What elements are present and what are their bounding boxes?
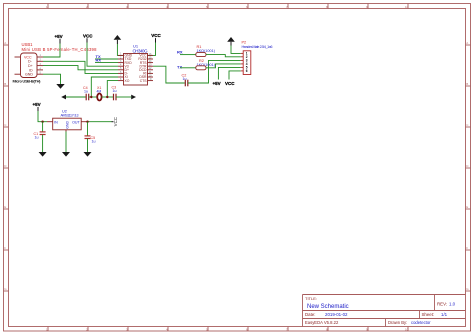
wire USB GND down — [43, 74, 61, 84]
svg-text:Micro USB-B(TH): Micro USB-B(TH) — [13, 78, 42, 83]
USB1 shield stub left lower — [15, 73, 21, 75]
svg-text:RX: RX — [96, 58, 102, 63]
wire VCC flag to U1 VCC pin — [148, 43, 156, 56]
wire C1 branch down — [42, 122, 44, 132]
svg-text:AMS1117-3.3: AMS1117-3.3 — [61, 113, 79, 117]
svg-text:E: E — [466, 205, 468, 209]
wire U1 DTR to C2 — [153, 66, 185, 83]
power flag VCC (rotated, at U2 OUT) — [112, 117, 118, 126]
svg-text:F: F — [466, 246, 468, 250]
svg-text:GND: GND — [65, 121, 69, 129]
U1 right pin names — [138, 54, 147, 83]
USB1 pin 5 GND stub — [37, 73, 43, 75]
capacitor C1 plates — [40, 132, 46, 135]
svg-text:6: 6 — [246, 69, 248, 73]
svg-text:OUT: OUT — [72, 120, 80, 124]
svg-text:1.0: 1.0 — [449, 301, 456, 306]
capacitor C2 plates — [185, 80, 188, 87]
svg-text:+5V: +5V — [55, 34, 63, 39]
ground arrow left of crystal rail — [61, 95, 66, 100]
svg-text:VCC: VCC — [225, 81, 235, 86]
svg-text:1u: 1u — [35, 135, 39, 139]
wire U1 XI to crystal rail — [91, 77, 118, 97]
U1 right pin numbers — [149, 52, 152, 81]
svg-text:1u: 1u — [113, 89, 117, 93]
svg-text:Sheet:: Sheet: — [422, 312, 435, 317]
wire R1 to header pin 2 — [206, 55, 241, 57]
wire X1 to XO node and C3 — [102, 96, 114, 98]
wire arrow to header pin 1 — [231, 46, 241, 54]
svg-text:B: B — [466, 82, 468, 86]
ground arrow below USB — [56, 84, 64, 89]
USB1 pin 2 D- stub — [37, 60, 43, 62]
node XO junction dot — [106, 96, 108, 98]
U2 GND pin stub down — [65, 130, 67, 132]
title block box — [303, 295, 466, 327]
frame ticks bottom — [48, 327, 408, 332]
wire USB D- to U1 D- — [43, 61, 118, 73]
crystal X1 body — [97, 94, 101, 101]
capacitor C5 plates — [85, 136, 91, 139]
svg-text:codetector: codetector — [411, 320, 431, 325]
svg-text:F: F — [4, 246, 6, 250]
svg-text:10: 10 — [405, 5, 409, 9]
connector P2 body — [243, 51, 251, 75]
svg-text:VCC: VCC — [113, 117, 118, 126]
wire C1 to ground — [42, 135, 44, 153]
ground arrow below C5 — [84, 152, 92, 157]
U1 left pin numbers — [120, 53, 122, 81]
title block divider REV — [434, 295, 436, 311]
wire USB VCC to +5V — [43, 44, 60, 58]
frame ticks left — [4, 45, 9, 291]
svg-text:A: A — [466, 41, 468, 45]
wire VCC flag to U1 V3 pin — [87, 43, 118, 67]
capacitor C3 plates — [114, 94, 117, 101]
svg-text:Mini USB B 5P-Female-TH_C46398: Mini USB B 5P-Female-TH_C46398 — [22, 47, 98, 52]
wire +5V flag to header pin 5 — [218, 67, 240, 79]
ground arrow below C1 — [39, 152, 47, 157]
U1 left pin names — [125, 54, 133, 83]
svg-text:Drawn By:: Drawn By: — [388, 320, 407, 325]
connector USB1 body — [21, 53, 38, 78]
USB1 pin 1 VCC stub — [37, 56, 43, 58]
resistor R2 body — [196, 66, 206, 70]
wire R2 to header pin 4 — [206, 64, 241, 68]
svg-text:CH340G: CH340G — [133, 48, 149, 53]
node C5 junction dot — [86, 121, 88, 123]
resistor R1 body — [196, 53, 206, 57]
svg-text:+5V: +5V — [33, 102, 41, 107]
frame ticks right — [466, 45, 471, 291]
U1 right pin stubs 16-9 — [148, 55, 154, 80]
node C1 junction dot — [41, 121, 43, 123]
title block divider Sheet — [419, 311, 421, 319]
wire TX to R2 — [180, 67, 196, 69]
wire C5 to ground — [87, 139, 89, 153]
svg-text:1u: 1u — [92, 139, 96, 143]
USB1 pin 3 D+ stub — [37, 65, 43, 67]
power arrow above header P2 — [227, 37, 235, 46]
wire U1 XO to crystal rail — [107, 81, 118, 97]
power flag +5V (regulator input) — [33, 102, 41, 111]
capacitor C4 plates — [86, 94, 89, 101]
node XI junction dot — [90, 96, 92, 98]
wire VCC flag to header pin 6 — [229, 71, 241, 80]
wire U1 TXD stub — [95, 58, 118, 60]
IC U1 body — [124, 54, 148, 86]
svg-text:VCC: VCC — [83, 33, 93, 38]
regulator U2 body — [53, 118, 81, 130]
svg-text:REV:: REV: — [437, 301, 447, 306]
wire crystal rail right — [116, 96, 131, 98]
USB1 shield stub left upper — [15, 56, 21, 58]
svg-text:RX: RX — [177, 50, 183, 55]
U2 OUT pin stub — [81, 121, 87, 123]
power arrow above U1 GND pin — [114, 35, 122, 44]
svg-text:A: A — [4, 41, 6, 45]
wire RX to R1 — [180, 54, 196, 56]
svg-text:TITLE:: TITLE: — [305, 296, 317, 301]
wire C2 to header pin 3 — [188, 60, 241, 83]
svg-text:XO: XO — [125, 79, 130, 83]
svg-text:New Schematic: New Schematic — [307, 304, 349, 310]
wire U2 GND to ground — [65, 132, 67, 153]
USB1 pin 4 ID stub — [37, 69, 43, 71]
svg-text:2019-01-02: 2019-01-02 — [325, 312, 348, 317]
svg-text:Header-Male 2.54_1x6: Header-Male 2.54_1x6 — [242, 45, 273, 49]
wire U1 RXD stub — [95, 62, 118, 64]
svg-text:1u: 1u — [84, 89, 88, 93]
P2 pin stubs — [241, 53, 243, 71]
power flag +5V (top left) — [55, 34, 63, 44]
svg-text:VCC: VCC — [151, 33, 161, 38]
svg-text:10: 10 — [405, 328, 409, 332]
power flag VCC (top, to V3) — [83, 33, 93, 42]
wire USB D+ to U1 D+ — [43, 66, 118, 70]
svg-text:+5V: +5V — [213, 81, 221, 86]
frame ticks top — [48, 4, 408, 9]
wire +5V to U2 IN — [38, 111, 47, 122]
U2 IN pin stub — [47, 121, 53, 123]
svg-text:TX: TX — [177, 65, 182, 70]
svg-text:Date:: Date: — [305, 312, 316, 317]
svg-text:1/1: 1/1 — [441, 312, 448, 317]
ground arrow below U2 — [62, 152, 70, 157]
wire C4 to XI node — [89, 96, 98, 98]
ground arrow right of crystal rail — [131, 95, 136, 100]
P2 pin numbers 1-6 — [246, 52, 248, 73]
wire U2 OUT to VCC — [87, 121, 112, 123]
power flag VCC (above U1 right) — [151, 33, 161, 42]
svg-text:E: E — [4, 205, 6, 209]
svg-text:IN: IN — [54, 120, 58, 124]
wire crystal rail left — [66, 96, 86, 98]
svg-text:B: B — [4, 82, 6, 86]
title block divider Drawn By — [385, 319, 387, 327]
wire C5 branch down — [87, 122, 89, 136]
USB1 pin numbers — [40, 54, 42, 74]
wire arrow to U1 GND pin — [117, 44, 123, 55]
svg-text:CTS: CTS — [140, 79, 148, 83]
svg-text:EasyEDA V5.8.22: EasyEDA V5.8.22 — [305, 320, 339, 325]
svg-text:GND: GND — [25, 73, 33, 77]
U1 left pin stubs 1-8 — [118, 55, 124, 80]
